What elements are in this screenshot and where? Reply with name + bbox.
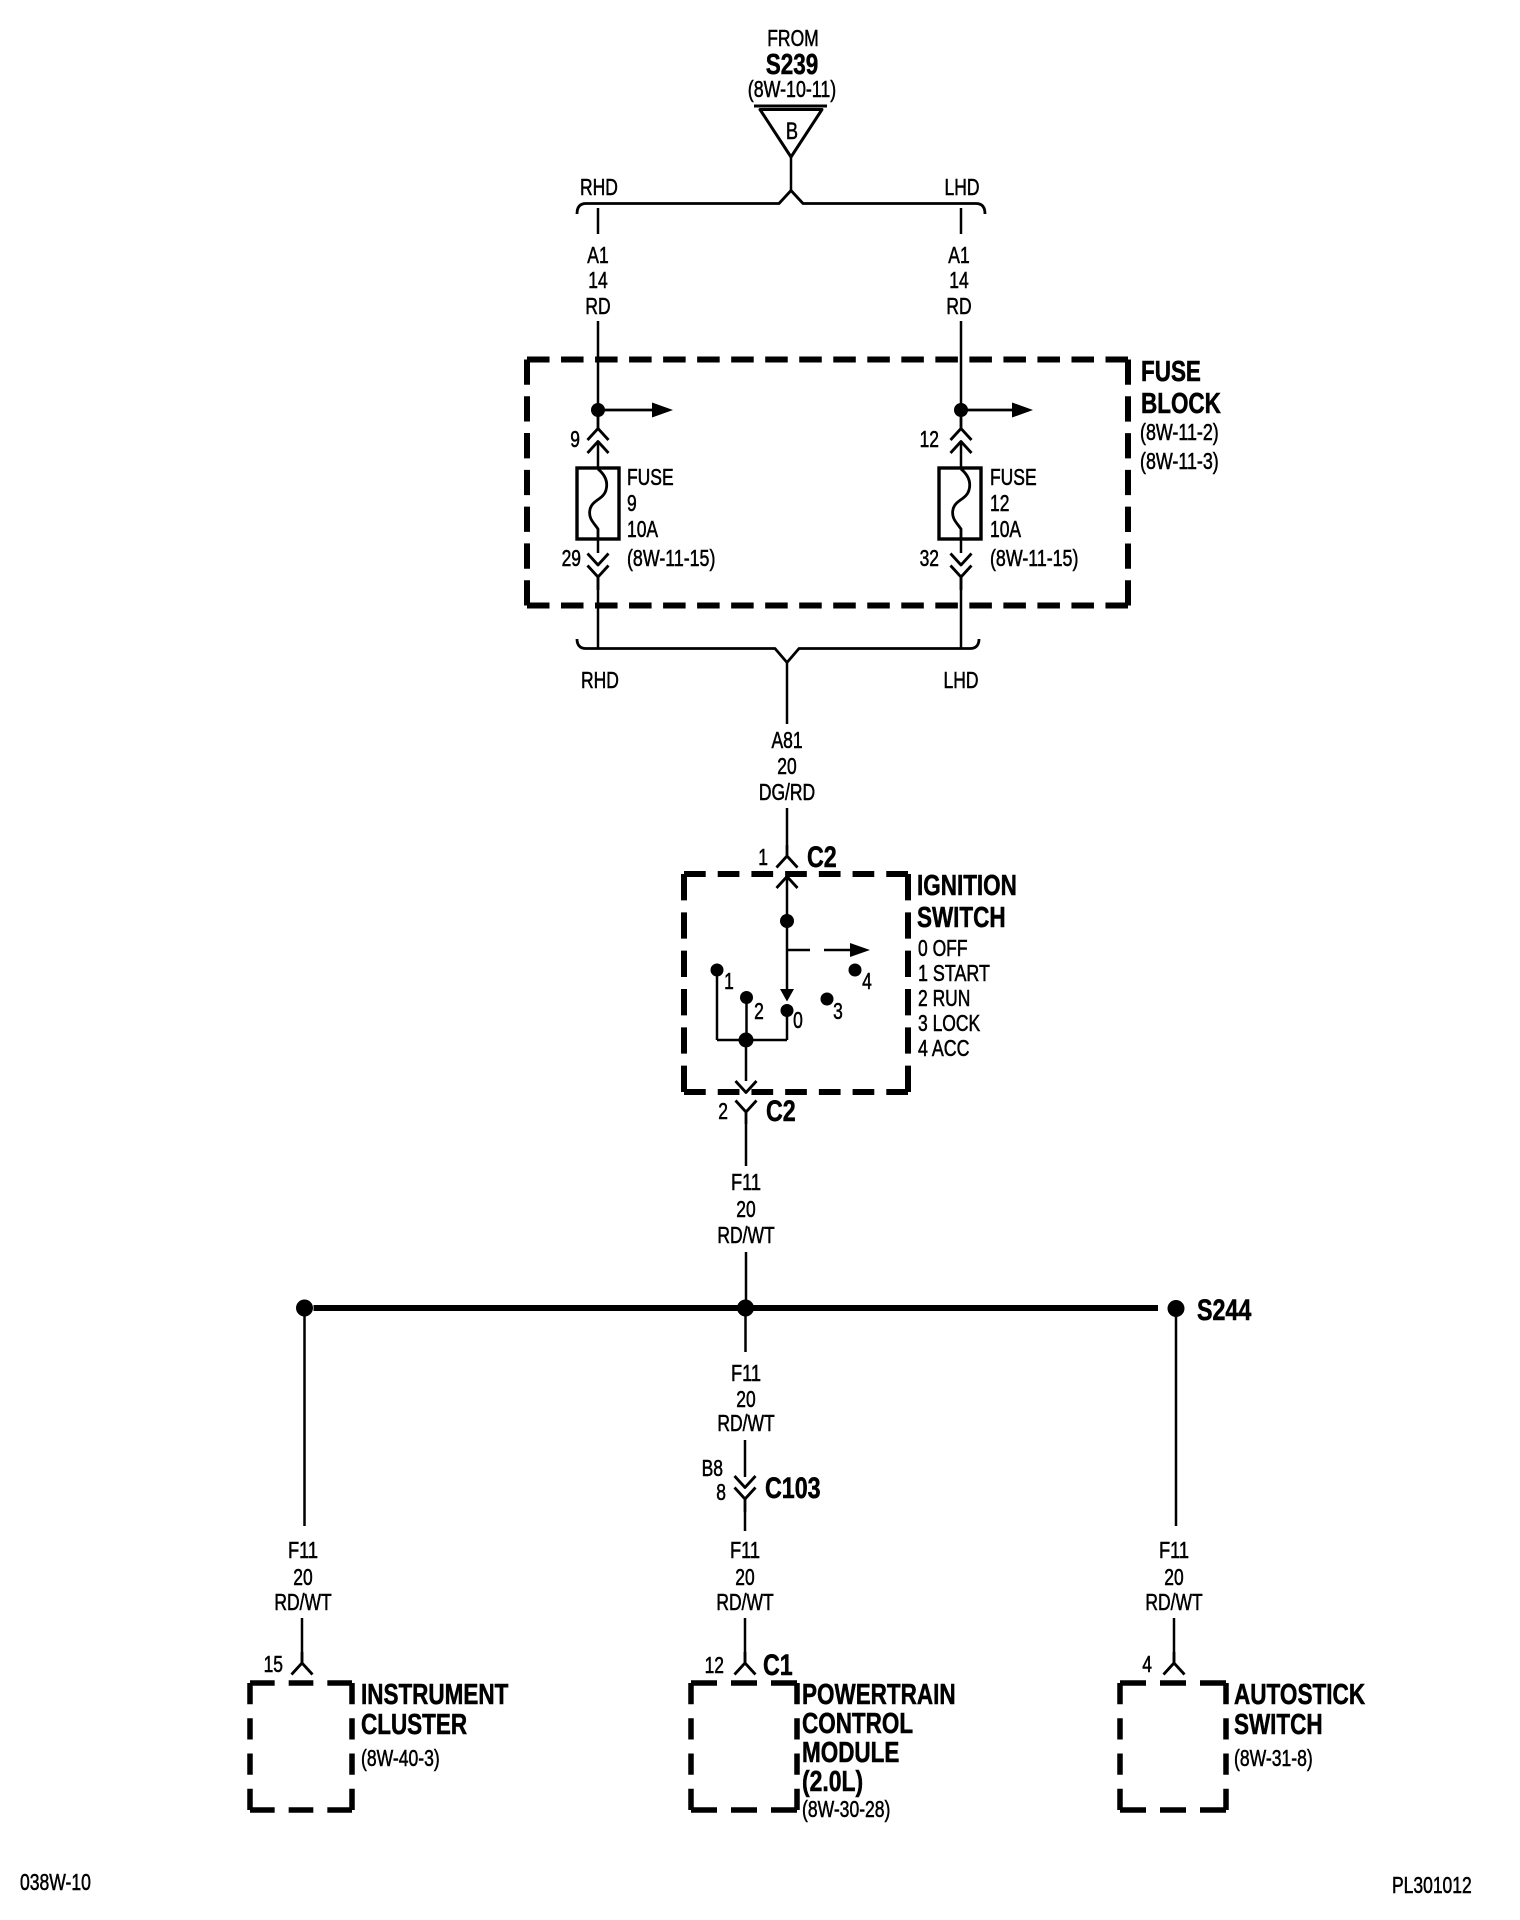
svg-text:1: 1 [758, 844, 768, 870]
wire stub LHD [960, 208, 963, 234]
fuse block dashed outline [527, 357, 1128, 363]
connector C2 pin 1 fork [777, 845, 798, 868]
wire contact 1 down [716, 975, 719, 1040]
svg-text:B8: B8 [702, 1455, 723, 1481]
wire into PCM [744, 1618, 747, 1663]
svg-text:9: 9 [570, 426, 580, 452]
wire A1 LHD into fuse block [960, 321, 963, 404]
svg-text:14: 14 [588, 267, 608, 293]
svg-text:20: 20 [735, 1564, 754, 1590]
wire pin 29 down [597, 577, 600, 649]
svg-text:20: 20 [736, 1196, 755, 1222]
wire stub RHD [597, 208, 600, 234]
wire to C2 pin 2 [745, 1040, 748, 1081]
connector C103 fork [735, 1488, 756, 1513]
instrument cluster dashed outline [250, 1680, 352, 1686]
svg-text:CLUSTER: CLUSTER [361, 1709, 467, 1741]
svg-text:LHD: LHD [945, 174, 980, 200]
svg-text:12: 12 [990, 490, 1009, 516]
connector C2 pin 1 chevron [777, 877, 798, 889]
svg-text:4: 4 [1142, 1651, 1152, 1677]
svg-text:C1: C1 [763, 1649, 793, 1682]
junction node LHD feed [954, 403, 968, 417]
svg-text:2: 2 [754, 998, 764, 1024]
wire below merge brace [786, 663, 789, 724]
wire fuse 12 out [960, 539, 963, 553]
wire contact 0 down [786, 1016, 789, 1040]
svg-text:A81: A81 [771, 727, 802, 753]
svg-text:10A: 10A [990, 516, 1022, 542]
svg-text:SWITCH: SWITCH [1234, 1709, 1323, 1741]
connector pin 9 fork [588, 415, 609, 440]
svg-text:RD/WT: RD/WT [717, 1222, 774, 1248]
brace merge RHD/LHD [577, 639, 979, 663]
svg-text:20: 20 [736, 1386, 755, 1412]
svg-text:(8W-11-15): (8W-11-15) [990, 545, 1078, 571]
wire F11 to splice [745, 1252, 748, 1301]
connector pin 15 fork [292, 1652, 313, 1675]
svg-text:IGNITION: IGNITION [917, 870, 1017, 902]
svg-text:2: 2 [718, 1098, 728, 1124]
svg-text:1: 1 [724, 968, 734, 994]
connector C2 pin 2 fork [736, 1101, 757, 1125]
fuse F12 body [939, 468, 981, 539]
fuse F9 body [577, 468, 619, 539]
node S244 right [1168, 1300, 1185, 1317]
svg-text:038W-10: 038W-10 [20, 1869, 91, 1895]
connector pin 9 chevron [588, 442, 609, 454]
wire left below splice [303, 1316, 306, 1526]
wire fuse 9 out [597, 539, 600, 553]
junction node RHD feed [591, 403, 605, 417]
svg-text:B: B [786, 118, 798, 145]
svg-text:CONTROL: CONTROL [802, 1708, 913, 1740]
feed arrow RHD [604, 409, 652, 412]
svg-text:1 START: 1 START [918, 960, 990, 986]
svg-text:2 RUN: 2 RUN [918, 985, 970, 1011]
svg-text:12: 12 [705, 1652, 724, 1678]
svg-text:AUTOSTICK: AUTOSTICK [1234, 1679, 1365, 1711]
svg-text:RD: RD [585, 293, 610, 319]
autostick switch dashed outline [1120, 1680, 1226, 1686]
connector pin 32 fork [951, 566, 972, 591]
wire A1 RHD into fuse block [597, 321, 600, 404]
wire into instrument cluster [301, 1618, 304, 1663]
svg-text:F11: F11 [731, 1169, 761, 1195]
svg-text:C103: C103 [765, 1472, 821, 1505]
svg-text:RHD: RHD [580, 174, 618, 200]
connector pin 4 fork [1164, 1652, 1185, 1675]
node S244 left [296, 1300, 313, 1317]
svg-text:29: 29 [562, 545, 581, 571]
svg-text:10A: 10A [627, 516, 659, 542]
contact 1 [711, 964, 724, 977]
feed arrow LHD [967, 409, 1012, 412]
wire into autostick switch [1173, 1618, 1176, 1663]
connector C2 pin 2 chevron [736, 1081, 757, 1093]
svg-text:F11: F11 [730, 1537, 760, 1563]
connector pin 29 fork [588, 566, 609, 591]
svg-text:C2: C2 [766, 1095, 796, 1128]
wire right below splice [1175, 1317, 1178, 1526]
off-page connector triangle B [754, 105, 827, 108]
wire to fuse 9 [597, 442, 600, 469]
svg-text:RD/WT: RD/WT [274, 1589, 331, 1615]
svg-text:(8W-30-28): (8W-30-28) [802, 1796, 890, 1822]
svg-text:RD/WT: RD/WT [716, 1589, 773, 1615]
wire center below splice [744, 1316, 747, 1352]
svg-text:(8W-31-8): (8W-31-8) [1234, 1745, 1313, 1771]
splice bus S244 [314, 1305, 1159, 1311]
brace split RHD/LHD [577, 191, 985, 215]
svg-text:POWERTRAIN: POWERTRAIN [802, 1679, 956, 1711]
svg-text:0 OFF: 0 OFF [918, 935, 968, 961]
connector C1 pin 12 fork [735, 1652, 756, 1675]
wire to C103 [744, 1440, 747, 1477]
wire contact 2 down [745, 1003, 748, 1040]
connector pin 12 fork [951, 415, 972, 440]
svg-text:RD/WT: RD/WT [1145, 1589, 1202, 1615]
wire from triangle B [790, 157, 793, 190]
svg-text:A1: A1 [948, 242, 969, 268]
switch output junction [739, 1033, 754, 1048]
svg-text:8: 8 [716, 1479, 726, 1505]
svg-text:20: 20 [293, 1564, 312, 1590]
svg-text:A1: A1 [587, 242, 608, 268]
powertrain control module dashed outline [691, 1680, 797, 1686]
svg-text:32: 32 [920, 545, 939, 571]
wire pin 32 down [960, 577, 963, 649]
wire A81 to ignition switch [786, 808, 789, 845]
svg-text:BLOCK: BLOCK [1141, 388, 1221, 420]
svg-text:(8W-10-11): (8W-10-11) [748, 76, 836, 102]
switch common node [780, 914, 794, 928]
svg-text:S244: S244 [1197, 1294, 1252, 1327]
connector pin 29 chevron [588, 554, 609, 566]
contact 4 [849, 964, 862, 977]
rotary wiper arrow [787, 949, 810, 952]
svg-text:12: 12 [920, 426, 939, 452]
wire C2 pin 2 down [745, 1124, 748, 1166]
svg-text:RD/WT: RD/WT [717, 1410, 774, 1436]
svg-text:INSTRUMENT: INSTRUMENT [361, 1679, 509, 1711]
svg-text:SWITCH: SWITCH [917, 902, 1006, 934]
wire horizontal in switch [717, 1039, 787, 1042]
svg-text:F11: F11 [288, 1537, 318, 1563]
connector C103 chevron [735, 1476, 756, 1488]
svg-text:F11: F11 [1159, 1537, 1189, 1563]
svg-text:FUSE: FUSE [1141, 356, 1201, 388]
svg-text:20: 20 [1164, 1564, 1183, 1590]
connector pin 32 chevron [951, 554, 972, 566]
svg-text:DG/RD: DG/RD [759, 779, 815, 805]
connector pin 12 chevron [951, 442, 972, 454]
svg-text:(8W-40-3): (8W-40-3) [361, 1745, 440, 1771]
svg-text:4: 4 [862, 968, 872, 994]
svg-text:(8W-11-2): (8W-11-2) [1140, 419, 1219, 445]
svg-text:(8W-11-3): (8W-11-3) [1140, 448, 1219, 474]
svg-text:RD: RD [946, 293, 971, 319]
svg-text:(2.0L): (2.0L) [802, 1766, 863, 1798]
svg-text:(8W-11-15): (8W-11-15) [627, 545, 715, 571]
ignition switch dashed outline [684, 871, 908, 877]
svg-text:20: 20 [777, 753, 796, 779]
contact 3 [821, 993, 834, 1006]
svg-text:FUSE: FUSE [627, 464, 674, 490]
svg-text:9: 9 [627, 490, 637, 516]
wire into switch [786, 877, 789, 916]
svg-text:PL301012: PL301012 [1392, 1872, 1472, 1898]
svg-text:RHD: RHD [581, 667, 619, 693]
svg-text:15: 15 [264, 1651, 283, 1677]
contact 2 [740, 991, 753, 1004]
contact 0 [781, 1004, 794, 1017]
svg-text:MODULE: MODULE [802, 1737, 899, 1769]
svg-text:3: 3 [833, 998, 843, 1024]
svg-text:FUSE: FUSE [990, 464, 1037, 490]
wire common down [786, 921, 789, 989]
node S244 center [737, 1300, 754, 1317]
svg-text:3 LOCK: 3 LOCK [918, 1010, 981, 1036]
svg-text:C2: C2 [807, 841, 837, 874]
svg-text:14: 14 [949, 267, 969, 293]
svg-text:0: 0 [793, 1007, 803, 1033]
svg-text:LHD: LHD [944, 667, 979, 693]
svg-text:FROM: FROM [767, 25, 819, 51]
wiper direction arrowhead [780, 989, 794, 1002]
wire to fuse 12 [960, 442, 963, 469]
svg-text:4 ACC: 4 ACC [918, 1035, 970, 1061]
wire C103 down [744, 1512, 747, 1531]
svg-text:F11: F11 [731, 1360, 761, 1386]
